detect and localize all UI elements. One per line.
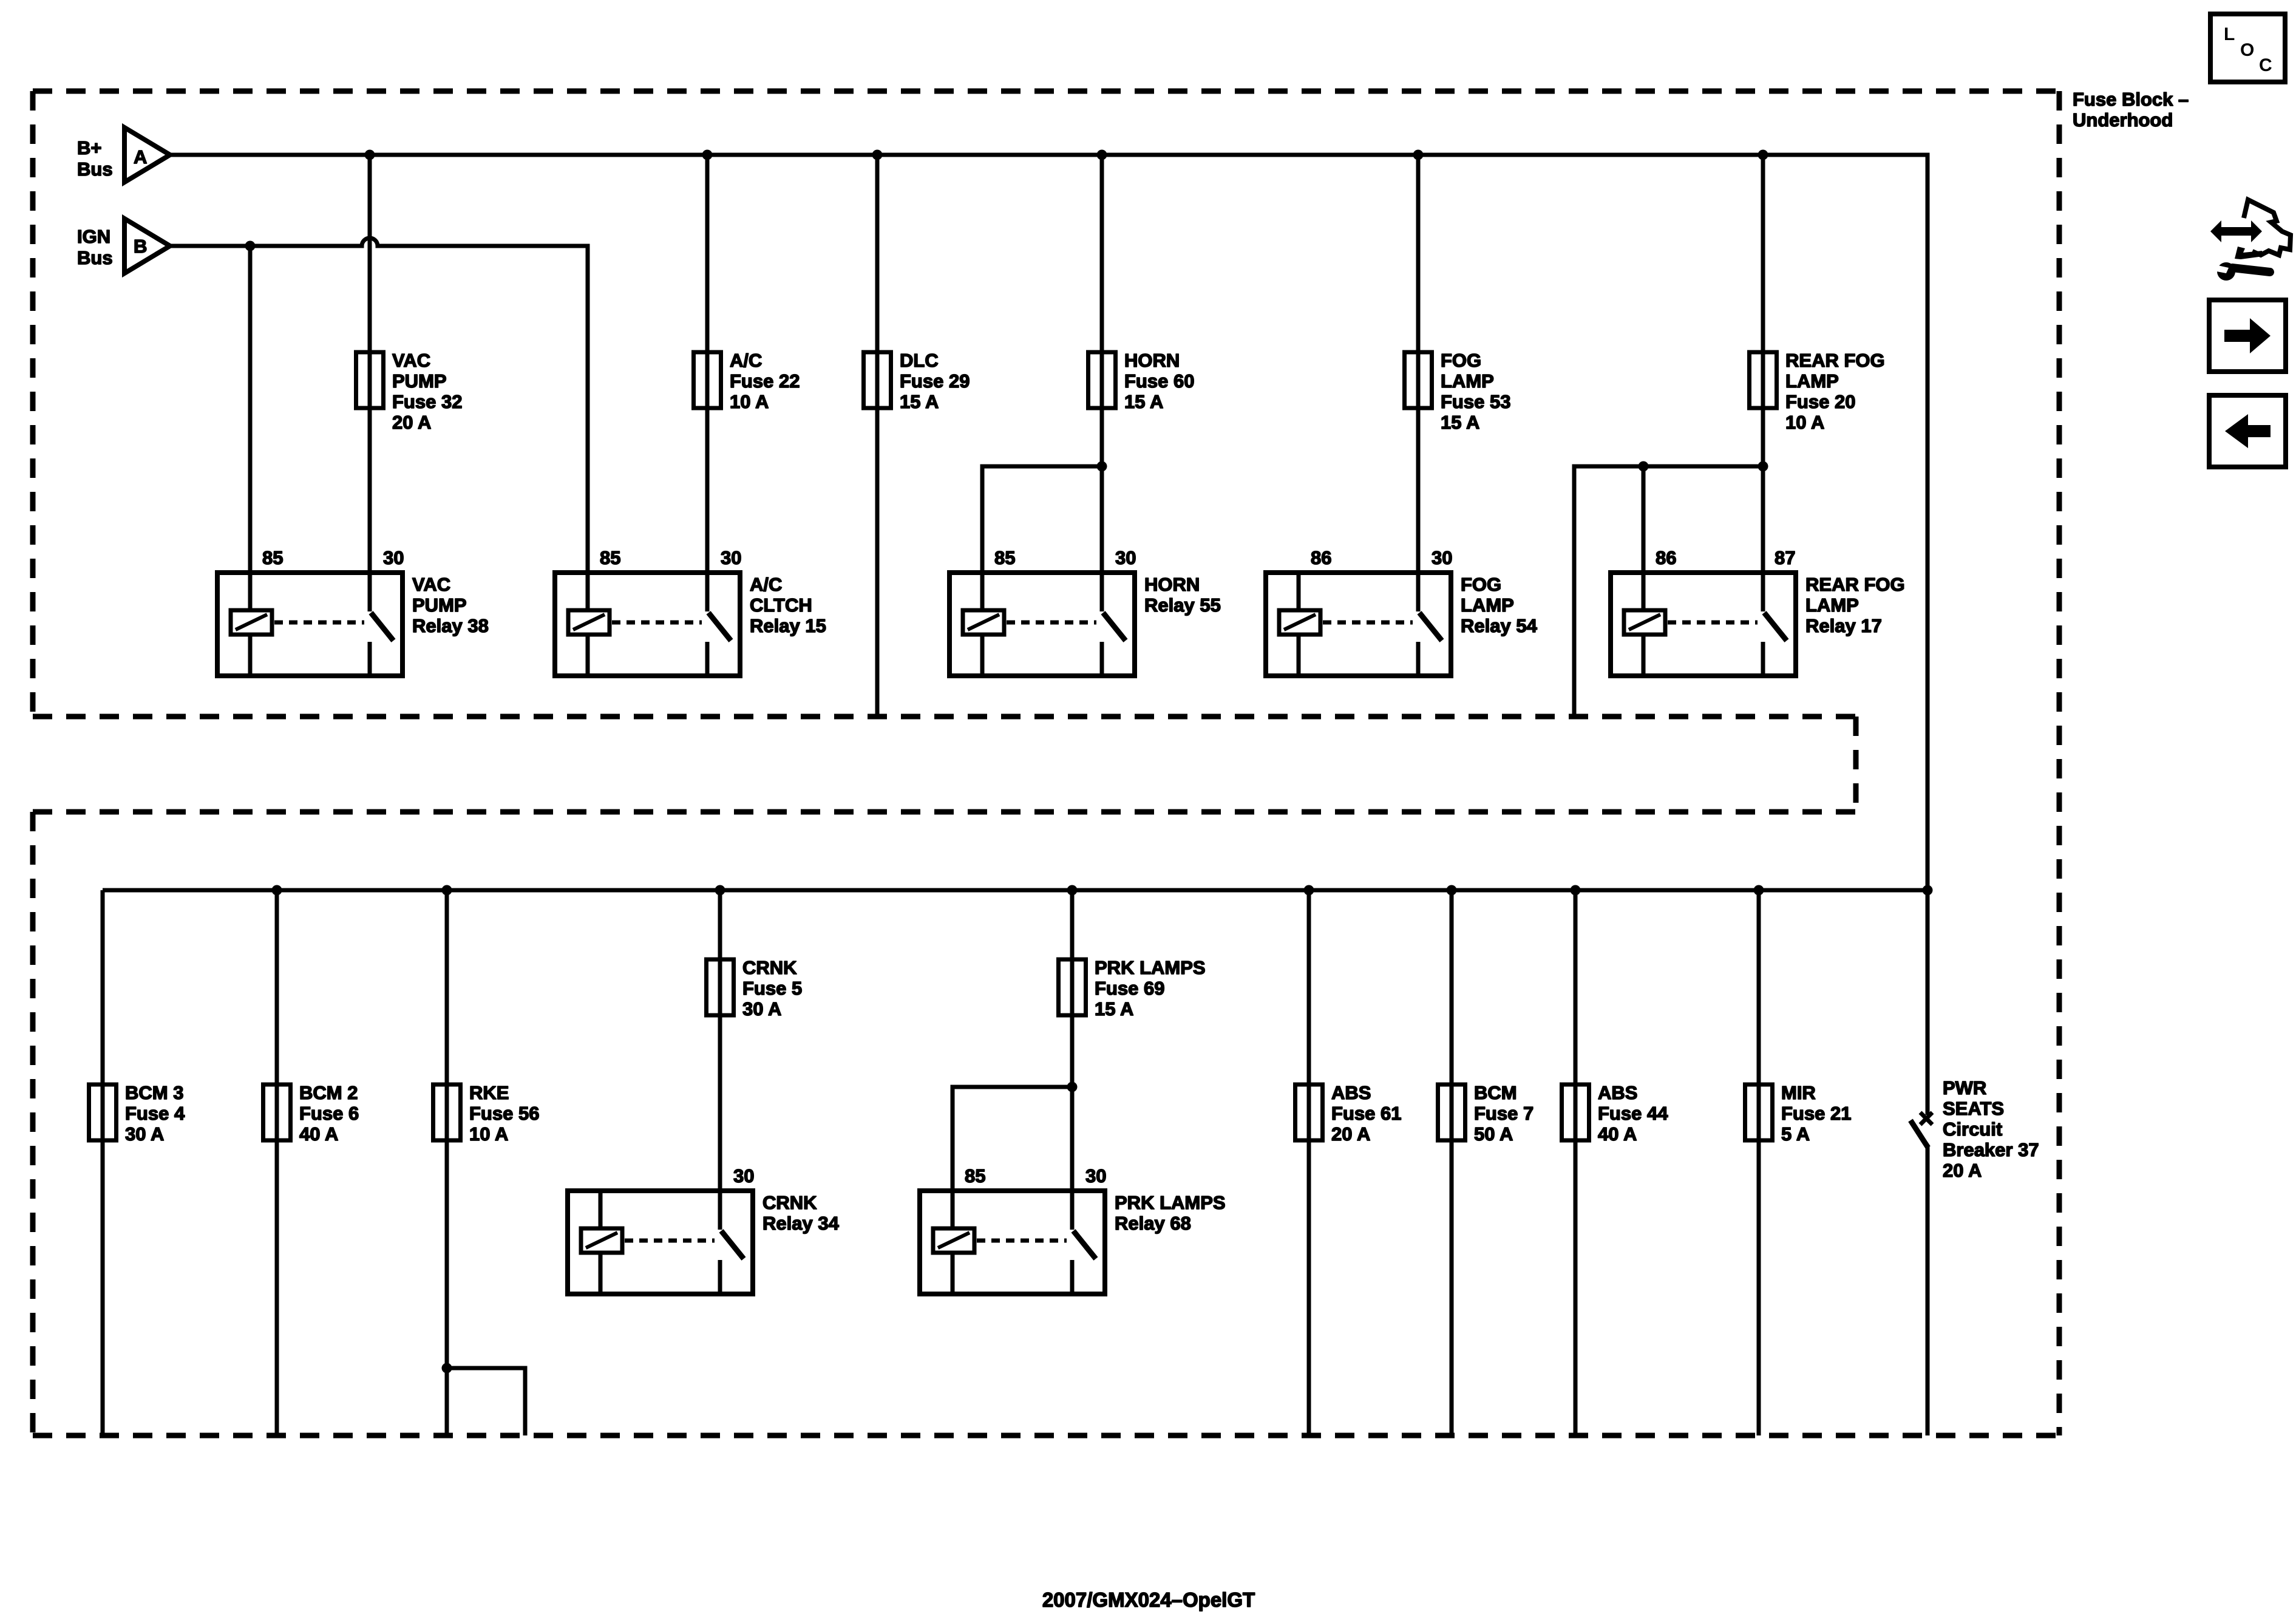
fuse block underhood dashed border: top edge (33, 89, 2059, 94)
svg-text:Relay 54: Relay 54 (1461, 615, 1538, 636)
svg-text:30: 30 (721, 547, 741, 568)
svg-text:Relay 15: Relay 15 (750, 615, 826, 636)
svg-text:HORN: HORN (1144, 574, 1200, 595)
fuse 29 DLC 15A (864, 352, 891, 408)
power distribution icon: wrench (2217, 262, 2235, 281)
fuse block underhood dashed border: slot lower edge (33, 809, 1856, 815)
svg-text:Fuse 53: Fuse 53 (1441, 391, 1510, 412)
relay 17 switch (1761, 573, 1765, 611)
svg-text:5 A: 5 A (1781, 1123, 1810, 1145)
svg-text:CRNK: CRNK (763, 1192, 817, 1213)
svg-text:Fuse 21: Fuse 21 (1781, 1103, 1851, 1124)
wire: VAC PUMP column from B+ bus through fuse to relay pin 30 (368, 155, 372, 573)
wire: REAR FOG column from B+ bus through fuse to relay pin 87 (1761, 155, 1765, 573)
wire: PRK LAMPS column through fuse to relay pin 30 (1070, 890, 1075, 1191)
wire: IGN drop to VAC PUMP relay pin 85 (248, 246, 253, 573)
svg-text:86: 86 (1656, 547, 1676, 568)
svg-text:50 A: 50 A (1474, 1123, 1513, 1145)
relay 17 REAR FOG LAMP: box (1611, 573, 1796, 676)
fuse 7 BCM 50A (1438, 1085, 1466, 1140)
fuse block underhood dashed border: slot right edge (1853, 717, 1859, 812)
svg-text:L: L (2224, 24, 2235, 44)
svg-text:Circuit: Circuit (1943, 1119, 2002, 1140)
wire: BCM 3 column (101, 890, 105, 1435)
junction dot on IGN bus (245, 241, 256, 251)
junction dot HORN 85 branch (1097, 461, 1107, 472)
junction dots on B+ bus (365, 150, 375, 160)
circuit breaker 37 PWR SEATS: feed wire (1926, 890, 1930, 1115)
svg-text:SEATS: SEATS (1943, 1098, 2004, 1119)
svg-text:RKE: RKE (469, 1082, 509, 1103)
relay 55 dashed actuator link (1007, 621, 1096, 625)
svg-text:PUMP: PUMP (412, 594, 467, 616)
svg-text:15 A: 15 A (1124, 391, 1163, 412)
fuse 20 REAR FOG LAMP 10A (1750, 352, 1777, 408)
fuse block underhood dashed border: left edge upper (30, 91, 36, 717)
svg-text:10 A: 10 A (469, 1123, 508, 1145)
svg-text:VAC: VAC (412, 574, 450, 595)
svg-text:BCM: BCM (1474, 1082, 1517, 1103)
wire: REAR FOG branch to pin 86 and to lower border (1574, 466, 1763, 717)
svg-text:A/C: A/C (730, 350, 762, 371)
svg-text:20 A: 20 A (1331, 1123, 1370, 1145)
svg-text:30: 30 (1115, 547, 1136, 568)
svg-text:ABS: ABS (1598, 1082, 1637, 1103)
fuse 53 FOG LAMP 15A (1405, 352, 1432, 408)
relay 15 A/C CLTCH: box (555, 573, 740, 676)
svg-text:Fuse 56: Fuse 56 (469, 1103, 539, 1124)
svg-text:Fuse 44: Fuse 44 (1598, 1103, 1668, 1124)
power distribution icon: outline shape (2244, 200, 2291, 255)
fuse block underhood dashed border: left edge lower (30, 812, 36, 1435)
svg-text:15 A: 15 A (1441, 412, 1479, 433)
relay 54 dashed actuator link (1323, 621, 1413, 625)
fuse 60 HORN 15A (1089, 352, 1116, 408)
svg-text:2007/GMX024–OpelGT: 2007/GMX024–OpelGT (1042, 1588, 1255, 1611)
fuse 61 ABS 20A (1296, 1085, 1323, 1140)
svg-text:40 A: 40 A (299, 1123, 338, 1145)
LOC icon box (2210, 14, 2285, 82)
svg-text:15 A: 15 A (1095, 998, 1133, 1020)
svg-text:85: 85 (965, 1165, 985, 1187)
junction dot PRK LAMPS 85 branch (1067, 1082, 1078, 1092)
svg-text:10 A: 10 A (730, 391, 769, 412)
svg-text:CRNK: CRNK (742, 957, 797, 978)
power distribution icon: bent arrow (2235, 247, 2263, 259)
fuse 44 ABS 40A (1562, 1085, 1589, 1140)
relay 54 switch (1416, 573, 1421, 611)
svg-text:85: 85 (600, 547, 620, 568)
relay 38 VAC PUMP: box (217, 573, 402, 676)
node B: IGN Bus input triangle (124, 219, 170, 273)
relay 68 PRK LAMPS: box (920, 1191, 1105, 1294)
junction dots on lower bus (272, 885, 282, 896)
svg-text:Relay 38: Relay 38 (412, 615, 489, 636)
svg-text:PUMP: PUMP (392, 370, 447, 392)
wire: BCM 2 column (275, 890, 279, 1435)
svg-text:Relay 55: Relay 55 (1144, 594, 1221, 616)
relay 38 switch (368, 573, 372, 611)
relay 34 switch (718, 1191, 722, 1230)
svg-text:Relay 34: Relay 34 (763, 1213, 840, 1234)
svg-text:REAR FOG: REAR FOG (1785, 350, 1885, 371)
relay 55 coil (980, 573, 985, 676)
svg-text:Fuse Block –: Fuse Block – (2073, 89, 2189, 110)
svg-text:IGN: IGN (77, 226, 110, 247)
svg-text:20 A: 20 A (1943, 1160, 1982, 1181)
svg-text:Bus: Bus (77, 247, 113, 268)
wire: HORN column from B+ bus through fuse to relay pin 30 (1100, 155, 1104, 573)
svg-text:ABS: ABS (1331, 1082, 1371, 1103)
relay 17 dashed actuator link (1668, 621, 1758, 625)
node A: B+ Bus input triangle (124, 128, 170, 182)
wire: PRK LAMPS relay pin 85 branch (953, 1087, 1072, 1191)
svg-text:85: 85 (262, 547, 283, 568)
svg-text:Fuse 6: Fuse 6 (299, 1103, 359, 1124)
relay 17 coil (1642, 573, 1646, 676)
svg-text:86: 86 (1311, 547, 1331, 568)
svg-text:FOG: FOG (1441, 350, 1481, 371)
svg-text:BCM 2: BCM 2 (299, 1082, 358, 1103)
svg-text:30 A: 30 A (742, 998, 781, 1020)
fuse 69 PRK LAMPS 15A (1059, 959, 1086, 1015)
left arrow icon box (2209, 395, 2286, 467)
relay 34 coil (599, 1191, 603, 1294)
wire: RKE column (445, 890, 449, 1435)
relay 68 switch (1070, 1191, 1075, 1230)
wire: HORN relay pin 85 branch (982, 466, 1102, 573)
svg-text:FOG: FOG (1461, 574, 1501, 595)
svg-text:87: 87 (1775, 547, 1795, 568)
fuse 6 BCM 2 40A (263, 1085, 291, 1140)
relay 55 HORN: box (949, 573, 1135, 676)
relay 38 dashed actuator link (274, 621, 364, 625)
relay 34 CRNK: box (568, 1191, 753, 1294)
svg-text:C: C (2259, 55, 2272, 75)
wire: FOG LAMP column from B+ bus through fuse to relay pin 30 (1416, 155, 1421, 573)
relay 68 coil (951, 1191, 955, 1294)
circuit breaker 37 contact x mark (1920, 1112, 1932, 1125)
svg-text:PRK LAMPS: PRK LAMPS (1095, 957, 1206, 978)
svg-text:Fuse 22: Fuse 22 (730, 370, 800, 392)
svg-text:Fuse 20: Fuse 20 (1785, 391, 1855, 412)
fuse block underhood dashed border: slot upper edge (33, 714, 1856, 720)
relay 15 switch (705, 573, 710, 611)
svg-text:Fuse 7: Fuse 7 (1474, 1103, 1533, 1124)
svg-text:Fuse 32: Fuse 32 (392, 391, 462, 412)
relay 54 coil (1297, 573, 1301, 676)
svg-text:LAMP: LAMP (1441, 370, 1494, 392)
wire: ABS fuse 61 column (1307, 890, 1311, 1435)
relay 54 FOG LAMP: box (1266, 573, 1451, 676)
fuse 32 VAC PUMP 20A (356, 352, 384, 408)
svg-text:Relay 68: Relay 68 (1115, 1213, 1191, 1234)
svg-text:Fuse 61: Fuse 61 (1331, 1103, 1401, 1124)
svg-text:Relay 17: Relay 17 (1805, 615, 1882, 636)
svg-text:B+: B+ (77, 137, 102, 158)
svg-text:VAC: VAC (392, 350, 430, 371)
fuse 4 BCM 3 30A (89, 1085, 117, 1140)
relay 68 dashed actuator link (977, 1239, 1067, 1243)
junction dot RKE stub (442, 1363, 452, 1374)
fuse 22 A/C 10A (694, 352, 721, 408)
wire: REAR FOG relay pin 86 drop (1642, 466, 1646, 573)
svg-text:30: 30 (383, 547, 404, 568)
svg-text:CLTCH: CLTCH (750, 594, 812, 616)
relay 15 dashed actuator link (612, 621, 702, 625)
fuse 21 MIR 5A (1745, 1085, 1773, 1140)
fuse 56 RKE 10A (433, 1085, 461, 1140)
svg-text:REAR FOG: REAR FOG (1805, 574, 1905, 595)
circuit breaker 37 output wire (1926, 1146, 1930, 1435)
svg-text:30 A: 30 A (125, 1123, 164, 1145)
junction dots REAR FOG branch (1639, 461, 1649, 472)
fuse 5 CRNK 30A (707, 959, 734, 1015)
svg-text:HORN: HORN (1124, 350, 1180, 371)
wire: A/C column from B+ bus through fuse to relay pin 30 (705, 155, 710, 573)
svg-text:30: 30 (1432, 547, 1452, 568)
svg-text:LAMP: LAMP (1785, 370, 1839, 392)
relay 55 switch (1100, 573, 1104, 611)
svg-text:LAMP: LAMP (1805, 594, 1859, 616)
wire: B+ bus horizontal and right feed down to lower bus (170, 155, 1927, 890)
fuse block underhood dashed border: right edge (2057, 91, 2062, 1435)
svg-text:PRK LAMPS: PRK LAMPS (1115, 1192, 1226, 1213)
wire: BCM fuse 7 column (1450, 890, 1454, 1435)
svg-text:Underhood: Underhood (2073, 109, 2173, 131)
svg-text:Fuse 4: Fuse 4 (125, 1103, 185, 1124)
svg-text:40 A: 40 A (1598, 1123, 1637, 1145)
wire: CRNK column through fuse to relay pin 30 (718, 890, 722, 1191)
wire: MIR column (1757, 890, 1761, 1435)
relay 15 coil (586, 573, 590, 676)
wire: lower bus horizontal (103, 888, 1927, 893)
wire: ABS fuse 44 column (1574, 890, 1578, 1435)
wire: DLC column from B+ bus through fuse to border (875, 155, 880, 717)
svg-text:15 A: 15 A (900, 391, 939, 412)
svg-text:30: 30 (733, 1165, 754, 1187)
svg-text:Fuse 60: Fuse 60 (1124, 370, 1194, 392)
svg-text:PWR: PWR (1943, 1077, 1986, 1098)
svg-text:Fuse 5: Fuse 5 (742, 978, 802, 999)
relay 34 dashed actuator link (625, 1239, 715, 1243)
svg-text:O: O (2240, 40, 2254, 60)
fuse block underhood dashed border: bottom edge (33, 1433, 2059, 1439)
svg-text:Fuse 29: Fuse 29 (900, 370, 970, 392)
svg-text:MIR: MIR (1781, 1082, 1816, 1103)
svg-text:BCM 3: BCM 3 (125, 1082, 183, 1103)
svg-text:20 A: 20 A (392, 412, 431, 433)
circuit breaker 37 blade (1911, 1120, 1928, 1148)
svg-text:A: A (134, 146, 147, 168)
svg-text:B: B (134, 236, 147, 257)
wire: IGN bus with hop over VAC column, down to A/C relay pin 85 (170, 238, 588, 573)
svg-text:Breaker 37: Breaker 37 (1943, 1139, 2039, 1160)
svg-text:A/C: A/C (750, 574, 782, 595)
svg-text:DLC: DLC (900, 350, 939, 371)
power distribution icon: double headed arrow (2210, 220, 2262, 242)
svg-text:Fuse 69: Fuse 69 (1095, 978, 1164, 999)
svg-text:30: 30 (1085, 1165, 1106, 1187)
wire: RKE stub branch to border (447, 1368, 525, 1435)
svg-text:LAMP: LAMP (1461, 594, 1514, 616)
svg-text:85: 85 (994, 547, 1015, 568)
svg-text:Bus: Bus (77, 158, 113, 180)
right arrow icon box (2209, 300, 2286, 372)
svg-text:10 A: 10 A (1785, 412, 1824, 433)
relay 38 coil (248, 573, 253, 676)
